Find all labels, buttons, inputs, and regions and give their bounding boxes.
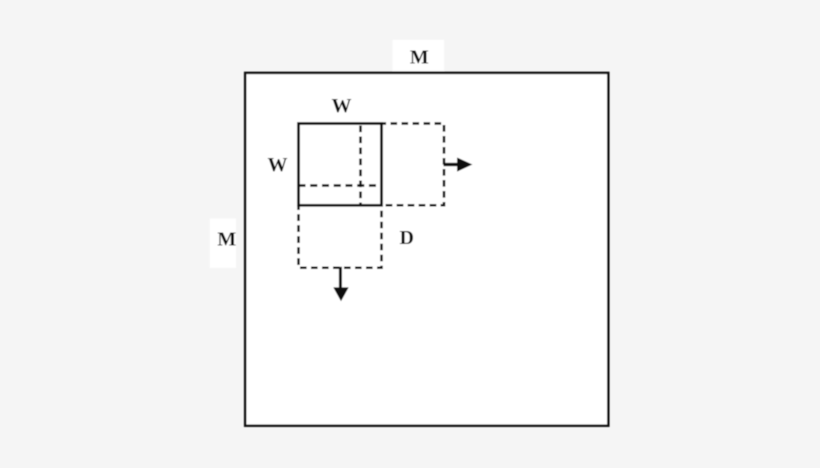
svg-text:D: D (399, 227, 413, 249)
outer memory square M x M (245, 73, 608, 426)
label box M (top) (393, 40, 445, 71)
label box M (left) (210, 219, 236, 268)
dashed window shifted down (left, bottom, right edges) (299, 205, 382, 267)
svg-text:M: M (217, 229, 236, 251)
dashed window shifted right (top, right, bottom edges) (382, 124, 445, 206)
svg-text:W: W (332, 95, 352, 117)
arrow right (444, 158, 473, 172)
arrow down (333, 267, 348, 301)
dashed left edge of right-shifted window (inside W square) (359, 124, 362, 206)
solid window square W x W (299, 124, 382, 206)
svg-text:M: M (410, 46, 429, 68)
dashed top edge of down-shifted window (inside W square) (299, 184, 382, 187)
svg-text:W: W (268, 154, 288, 176)
